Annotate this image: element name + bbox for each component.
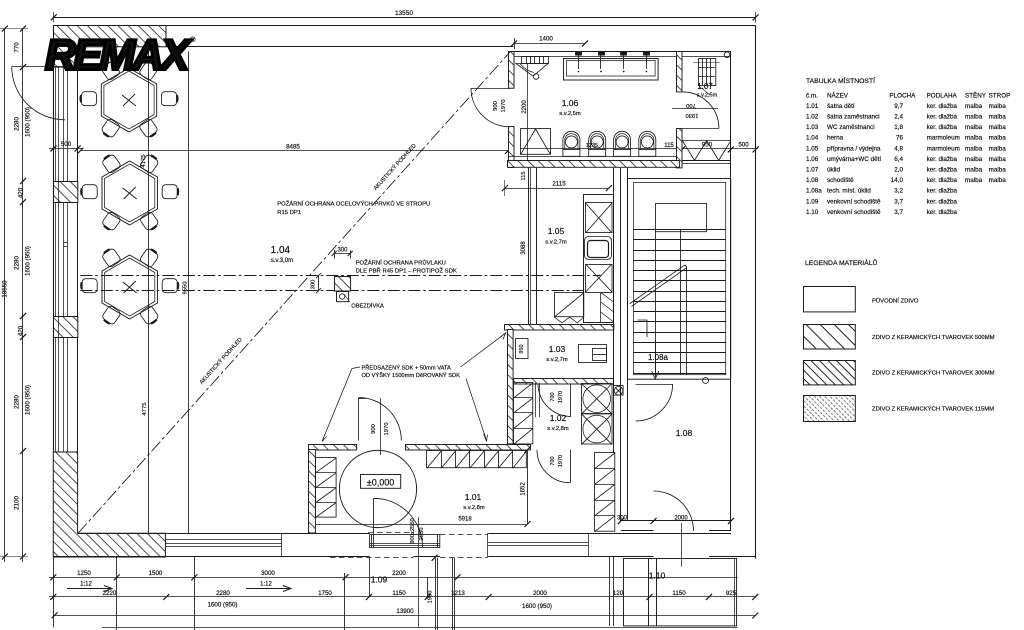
svg-text:PŮVODNÍ ZDIVO: PŮVODNÍ ZDIVO (872, 298, 919, 305)
svg-text:NÁZEV: NÁZEV (827, 91, 849, 100)
svg-text:3,2: 3,2 (894, 188, 903, 195)
coat hook row in 1.01 (427, 451, 527, 469)
svg-text:1150: 1150 (672, 590, 686, 597)
svg-text:4,8: 4,8 (894, 145, 903, 152)
svg-text:500: 500 (61, 141, 72, 148)
svg-text:3,7: 3,7 (894, 209, 903, 216)
svg-text:1.04: 1.04 (806, 135, 819, 142)
wall 1.03/1.02 hatched band (514, 379, 614, 385)
svg-text:1213: 1213 (451, 590, 465, 597)
svg-text:700: 700 (686, 102, 696, 108)
svg-text:700: 700 (550, 456, 556, 465)
small circle stair bottom (703, 378, 709, 384)
entrance door arc top-left (12, 67, 65, 120)
legend 115mm swatch (804, 396, 856, 422)
svg-text:2280: 2280 (216, 590, 230, 597)
svg-text:OD VÝŠKY 1500mm DěROVANÝ SDK: OD VÝŠKY 1500mm DěROVANÝ SDK (362, 372, 461, 379)
ladder grid in 1.07 (693, 58, 720, 95)
svg-text:300: 300 (337, 248, 348, 254)
svg-text:5918: 5918 (458, 517, 472, 523)
svg-text:úklid: úklid (827, 167, 840, 174)
door labels 700 1970 (1.01) (550, 455, 564, 467)
hexagon table 2 (102, 161, 157, 225)
svg-text:LEGENDA MATERIÁLŮ: LEGENDA MATERIÁLŮ (805, 258, 877, 267)
svg-text:1150: 1150 (392, 590, 406, 597)
svg-text:10550: 10550 (2, 280, 9, 298)
svg-text:420: 420 (18, 187, 25, 198)
door labels 900x2550 (410, 518, 425, 543)
svg-text:1.06: 1.06 (562, 98, 579, 108)
svg-text:šatna zaměstnanci: šatna zaměstnanci (827, 114, 880, 121)
svg-text:1.08a: 1.08a (806, 188, 822, 195)
svg-text:WC zaměstnanci: WC zaměstnanci (827, 124, 875, 131)
svg-text:malba: malba (989, 167, 1007, 174)
door 1.02 to 1.01 swing (537, 450, 571, 483)
svg-text:2000: 2000 (533, 590, 547, 597)
svg-text:malba: malba (965, 145, 983, 152)
sink box with diagonal 1.05 (554, 293, 584, 323)
svg-text:1:12: 1:12 (80, 582, 92, 588)
svg-text:ker. dlažba: ker. dlažba (927, 167, 958, 174)
svg-text:ker. dlažba: ker. dlažba (927, 156, 958, 163)
bottom wall window glazing segment 3 (488, 533, 589, 557)
left chain tick marks (2, 26, 26, 560)
svg-text:950: 950 (519, 344, 525, 353)
svg-text:malba: malba (989, 103, 1007, 110)
corner circle 1.07 (724, 52, 730, 58)
svg-text:1.10: 1.10 (649, 571, 666, 581)
svg-text:2,0: 2,0 (894, 167, 903, 174)
staircase 1.08a (628, 179, 731, 380)
svg-text:POŽÁRNÍ OCHRANA PRŮVLAKU: POŽÁRNÍ OCHRANA PRŮVLAKU (356, 259, 446, 267)
svg-text:1652: 1652 (521, 482, 527, 496)
svg-text:malba: malba (989, 124, 1007, 131)
svg-text:ZDIVO Z KERAMICKÝCH TVAROVEK 3: ZDIVO Z KERAMICKÝCH TVAROVEK 300MM (872, 370, 995, 377)
svg-text:2000: 2000 (674, 516, 688, 522)
row2 dim line (49, 596, 756, 598)
svg-text:tech. míst. úklid: tech. míst. úklid (827, 188, 871, 195)
corridor bottom wall of 1.06 hatched (508, 161, 680, 168)
shower box with X in 1.06 (521, 129, 551, 155)
dim 300 2000 at 1.08 bottom (614, 517, 734, 524)
svg-text:1:12: 1:12 (260, 582, 272, 588)
svg-text:2115: 2115 (552, 181, 566, 188)
left chain labels (2, 42, 32, 510)
svg-text:14,0: 14,0 (891, 177, 904, 184)
svg-text:1.06: 1.06 (806, 156, 819, 163)
1.08a corner line (638, 320, 647, 337)
svg-text:TABULKA MÍSTNOSTÍ: TABULKA MÍSTNOSTÍ (806, 76, 875, 85)
svg-text:1600 (950): 1600 (950) (25, 385, 32, 415)
row4 line (102, 627, 738, 629)
row2b labels 1600 (950) (208, 602, 552, 611)
door 1.08 bottom swing (654, 491, 694, 567)
dim 300 above column (332, 250, 353, 259)
window glazing lines left wall (59, 67, 68, 452)
svg-text:1600 (950): 1600 (950) (522, 603, 552, 610)
fire protection note 1 (277, 200, 430, 217)
svg-text:ZDIVO Z KERAMICKÝCH TVAROVEK 1: ZDIVO Z KERAMICKÝCH TVAROVEK 115MM (872, 406, 994, 413)
door labels 900 1970 (493, 100, 507, 113)
door 1.03 swing (538, 384, 571, 417)
row1 dim line (49, 577, 738, 579)
building outer top edge (53, 25, 755, 27)
top wall inner edge (166, 46, 514, 48)
svg-text:420: 420 (18, 325, 25, 336)
svg-text:2280: 2280 (14, 117, 21, 131)
svg-text:marmoleum: marmoleum (927, 135, 960, 142)
bottom door 1.09 swing (374, 498, 423, 547)
legend 300mm swatch (804, 361, 856, 385)
table header (806, 91, 1010, 100)
svg-text:1,8: 1,8 (894, 124, 903, 131)
chairs for tables (81, 60, 179, 326)
svg-text:9550: 9550 (183, 282, 189, 295)
legend original masonry swatch (804, 287, 856, 312)
svg-text:770: 770 (14, 42, 21, 53)
bottom wall entrance window/door frame (370, 517, 440, 627)
bench in 1.06 (564, 59, 659, 81)
svg-text:13550: 13550 (395, 10, 413, 17)
zero level box (361, 475, 401, 489)
svg-text:1.10: 1.10 (806, 209, 819, 216)
svg-text:6,4: 6,4 (894, 156, 903, 163)
door 1.01 top swing (358, 397, 401, 455)
svg-text:schodiště: schodiště (827, 177, 854, 184)
dimension 500 top-left (49, 145, 82, 151)
section dash-dot line 1 (80, 275, 600, 277)
play circle in 1.01 (339, 450, 416, 527)
hexagon table 3 (102, 255, 157, 319)
svg-text:76: 76 (896, 135, 904, 142)
svg-text:925: 925 (726, 590, 737, 597)
svg-text:R15 DP1: R15 DP1 (277, 210, 301, 216)
svg-text:1970: 1970 (384, 423, 390, 436)
svg-text:malba: malba (965, 103, 983, 110)
svg-text:900: 900 (371, 424, 377, 434)
svg-text:malba: malba (989, 156, 1007, 163)
kitchen appliance X-box 1 (586, 203, 613, 234)
svg-text:1.07: 1.07 (806, 167, 819, 174)
staircase top landing box (656, 204, 707, 232)
svg-text:900x2550: 900x2550 (410, 518, 416, 543)
dimension 8485 (80, 150, 508, 152)
left wall pier hatched 420 no.2 (54, 317, 78, 338)
svg-text:malba: malba (965, 167, 983, 174)
svg-text:1.01: 1.01 (806, 103, 819, 110)
interior vertical line B (188, 51, 190, 533)
top dimension line 13550 (51, 12, 759, 22)
room 1.06 left wall hatched (509, 52, 515, 89)
left wall bottom corner hatched (53, 452, 165, 557)
svg-text:1.05: 1.05 (548, 226, 565, 236)
svg-text:ker. dlažba: ker. dlažba (927, 177, 958, 184)
outdoor stair 1.10 (624, 559, 737, 627)
svg-text:115: 115 (521, 171, 527, 180)
table in 1.03 (579, 345, 608, 363)
left wall inner line (77, 47, 79, 534)
svg-text:1.07: 1.07 (697, 82, 713, 91)
drywall note (362, 364, 461, 380)
right outer frame line (755, 25, 757, 558)
svg-text:herna: herna (827, 135, 844, 142)
kitchen zigzag strip (601, 292, 614, 323)
wall 1.05/1.03 hatched band (505, 325, 614, 331)
svg-text:2220: 2220 (103, 590, 117, 597)
svg-text:3000: 3000 (261, 570, 275, 577)
svg-text:2280: 2280 (14, 395, 21, 409)
table rows (806, 103, 1006, 216)
room 1.06 top wall (508, 52, 731, 57)
svg-text:OBEZDÍVKA: OBEZDÍVKA (351, 303, 384, 310)
room 1.07 right wall (730, 51, 732, 531)
dimension 115 950 500 top-right (521, 146, 759, 152)
svg-text:ker. dlažba: ker. dlažba (927, 188, 958, 195)
svg-text:s.v.2,5m: s.v.2,5m (559, 111, 581, 117)
svg-text:ker. dlažba: ker. dlažba (927, 103, 958, 110)
svg-text:1.01: 1.01 (465, 492, 482, 502)
svg-text:2550: 2550 (419, 528, 425, 541)
svg-text:AKUSTICKÝ PODHLED: AKUSTICKÝ PODHLED (372, 142, 418, 192)
svg-text:1750: 1750 (318, 590, 332, 597)
staircase ramp diagonal rail (630, 265, 687, 375)
svg-text:malba: malba (965, 114, 983, 121)
svg-text:DLE PBŘ R45 DP1 – PROTIPOŽ SDK: DLE PBŘ R45 DP1 – PROTIPOŽ SDK (356, 267, 457, 275)
door labels 900 1970 (1.01 top) (371, 423, 390, 436)
bottom wall door gap dashed lines (330, 533, 488, 558)
room 1.06 bottom wall inner line (509, 156, 677, 158)
row3 dim line (53, 615, 756, 617)
svg-text:1.08: 1.08 (806, 177, 819, 184)
left wall outer line (53, 25, 55, 557)
staircase steps (633, 230, 725, 374)
door 1.08 top-left swing (636, 384, 673, 421)
svg-text:ker. dlažba: ker. dlažba (927, 114, 958, 121)
svg-text:1.03: 1.03 (806, 124, 819, 131)
svg-text:POŽÁRNÍ OCHRANA OCELOVÝCH PRVK: POŽÁRNÍ OCHRANA OCELOVÝCH PRVKŮ VE STROP… (277, 200, 430, 208)
shelf column in 1.02 (514, 383, 540, 445)
svg-text:s.v.2,7m: s.v.2,7m (545, 240, 567, 246)
svg-text:ker. dlažba: ker. dlažba (927, 124, 958, 131)
svg-text:malba: malba (965, 177, 983, 184)
dimension 2115 (502, 180, 612, 196)
svg-text:2100: 2100 (14, 496, 21, 510)
room table (806, 76, 1010, 216)
section dash-dot line 2 (80, 290, 583, 292)
corridor wall lines to right (682, 160, 730, 162)
wall 1.02/1.01 hatched band (309, 445, 357, 451)
bench hooks (576, 52, 650, 70)
svg-text:1900: 1900 (428, 591, 434, 604)
svg-text:1.08: 1.08 (676, 428, 693, 438)
room 1.08 bottom wall (621, 521, 731, 531)
svg-text:venkovní schodiště: venkovní schodiště (827, 209, 881, 216)
left wall pier hatched top corner (54, 47, 78, 68)
wardrobe cells left in 1.01 (316, 458, 337, 518)
bottom wall window glazing segment 1 (165, 533, 281, 557)
wall 1.06/1.07 hatched (677, 52, 683, 92)
svg-text:malba: malba (965, 135, 983, 142)
svg-text:PLOCHA: PLOCHA (889, 93, 916, 100)
washer X-box 1 in 1.02 (582, 384, 613, 414)
svg-text:1.08a: 1.08a (648, 353, 669, 362)
svg-text:č.m.: č.m. (806, 93, 818, 100)
hexagon table 1 (101, 68, 156, 132)
fire protection note 2 (356, 259, 457, 275)
svg-text:přípravna / výdejna: přípravna / výdejna (827, 145, 881, 152)
svg-text:8485: 8485 (286, 143, 300, 150)
svg-text:2280: 2280 (14, 256, 21, 270)
svg-text:1.04: 1.04 (271, 245, 291, 256)
toilets in 1.06 (563, 131, 656, 156)
svg-text:1970: 1970 (558, 391, 564, 403)
svg-text:ZDIVO Z KERAMICKÝCH TVAROVEK 5: ZDIVO Z KERAMICKÝCH TVAROVEK 500MM (872, 334, 995, 341)
svg-text:STROP: STROP (989, 93, 1011, 100)
REMAX logo (45, 32, 196, 80)
washer X-box 2 in 1.02 (582, 414, 613, 445)
stair 1.09 triangles top-right (682, 141, 730, 161)
svg-text:±0,000: ±0,000 (367, 478, 394, 488)
svg-text:2200: 2200 (392, 570, 406, 577)
staircase centre verticals (656, 230, 681, 375)
svg-text:AKUSTICKÝ PODHLED: AKUSTICKÝ PODHLED (198, 336, 244, 386)
staircase down arrow (652, 340, 659, 379)
wall left of 1.03 hatched vertical (508, 330, 514, 444)
svg-text:4775: 4775 (142, 403, 148, 416)
steel column with casing (335, 277, 351, 302)
kitchen appliance X-box 2 (586, 264, 613, 293)
bottom wall band (53, 534, 755, 557)
door labels 700 1970 (1.02) (550, 391, 564, 403)
svg-text:s.v.2,5m: s.v.2,5m (697, 93, 718, 99)
svg-text:1600 (950): 1600 (950) (25, 107, 32, 137)
row1 labels (77, 570, 406, 577)
circle-x wall symbol (614, 386, 624, 396)
radiator and baby bath top-left of 1.06 (516, 56, 549, 161)
svg-text:700: 700 (550, 392, 556, 401)
row2 ticks (50, 594, 758, 600)
verticals below wall (54, 557, 614, 630)
svg-text:malba: malba (965, 156, 983, 163)
svg-text:500: 500 (738, 142, 749, 149)
svg-text:2200: 2200 (522, 100, 528, 114)
svg-text:umývárna+WC dětí: umývárna+WC dětí (827, 156, 881, 163)
svg-text:1250: 1250 (77, 570, 91, 577)
drywall note leader lines (322, 333, 506, 442)
ramp 1:12 labels and arrows (80, 582, 272, 588)
svg-text:1400: 1400 (539, 36, 553, 43)
svg-text:1.05: 1.05 (806, 145, 819, 152)
svg-text:marmoleum: marmoleum (927, 145, 960, 152)
svg-text:1500: 1500 (149, 570, 163, 577)
dimension 5918 (316, 521, 531, 527)
svg-text:1600 (950): 1600 (950) (25, 246, 32, 276)
svg-text:malba: malba (989, 145, 1007, 152)
svg-text:STĚNY: STĚNY (965, 91, 987, 100)
legend 500mm swatch (804, 325, 856, 350)
svg-text:PŘEDSAZENÝ SDK + 50mm VATA: PŘEDSAZENÝ SDK + 50mm VATA (362, 364, 451, 372)
svg-text:venkovní schodiště: venkovní schodiště (827, 198, 881, 205)
wall left of 1.01 vertical (309, 450, 316, 534)
door 1.07 labels 700 1930 upside down (686, 102, 699, 118)
shaft box 950 in 1.03 (516, 339, 529, 359)
interior vertical line A (148, 51, 150, 533)
svg-text:1.09: 1.09 (806, 198, 819, 205)
svg-text:malba: malba (989, 177, 1007, 184)
svg-text:šatna dětí: šatna dětí (827, 103, 855, 110)
svg-text:s.v.2,7m: s.v.2,7m (546, 357, 568, 363)
svg-text:300: 300 (311, 280, 317, 290)
svg-text:s.v.3,0m: s.v.3,0m (271, 258, 293, 264)
door 1.07 swing (682, 92, 719, 128)
svg-text:1.02: 1.02 (550, 413, 567, 423)
svg-text:3088: 3088 (521, 241, 527, 255)
shelving column right in 1.01 (595, 453, 615, 532)
svg-text:3,7: 3,7 (894, 198, 903, 205)
bench dots (578, 71, 648, 73)
svg-text:PODLAHA: PODLAHA (927, 93, 958, 100)
row1 ticks (50, 574, 460, 580)
svg-text:900: 900 (493, 101, 499, 111)
svg-text:1235: 1235 (586, 143, 598, 149)
svg-text:300: 300 (617, 516, 628, 522)
svg-text:120: 120 (613, 590, 624, 597)
svg-text:ker. dlažba: ker. dlažba (927, 209, 958, 216)
top wall hatched band left (54, 26, 167, 47)
partition wall 1.04/1.05 (529, 168, 537, 324)
svg-text:1970: 1970 (558, 455, 564, 467)
acoustic ceiling diagonal dash-dot line (78, 52, 510, 533)
door 1.06 left swing (471, 88, 510, 127)
svg-text:1930: 1930 (686, 112, 699, 118)
svg-text:2,4: 2,4 (894, 114, 903, 121)
left wall pier hatched 420 no.1 (54, 182, 78, 203)
svg-text:1600 (950): 1600 (950) (208, 602, 238, 609)
svg-text:ker. dlažba: ker. dlažba (927, 198, 958, 205)
bottom dimension rows (49, 557, 758, 630)
kitchen counter column 1.05 (584, 195, 614, 323)
row2 labels (103, 590, 737, 597)
svg-text:1.03: 1.03 (549, 344, 566, 354)
kitchen chair object (585, 237, 612, 260)
wall kitchen/stairwell vertical lines (614, 168, 628, 521)
svg-text:1.02: 1.02 (806, 114, 819, 121)
svg-text:s.v.2,8m: s.v.2,8m (463, 505, 485, 511)
svg-text:1970: 1970 (501, 100, 507, 113)
svg-text:115: 115 (664, 143, 674, 149)
svg-text:s.v.2,8m: s.v.2,8m (547, 426, 569, 432)
svg-text:13900: 13900 (396, 608, 414, 615)
legend (804, 258, 995, 422)
svg-text:®: ® (190, 35, 196, 44)
svg-text:REMAX: REMAX (45, 32, 192, 80)
dimension 1400 (511, 38, 588, 49)
dimension 1652 vertical (525, 447, 531, 524)
svg-text:malba: malba (965, 124, 983, 131)
svg-text:1.09: 1.09 (371, 575, 388, 585)
left dimension chain lines (0, 29, 28, 563)
svg-text:malba: malba (989, 135, 1007, 142)
svg-text:9,7: 9,7 (894, 103, 903, 110)
svg-text:malba: malba (989, 114, 1007, 121)
